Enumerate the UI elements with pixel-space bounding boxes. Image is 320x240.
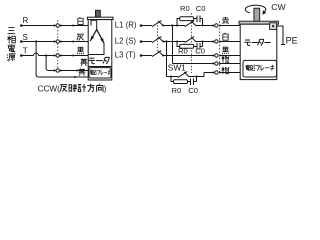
svg-text:): )	[104, 85, 107, 94]
svg-text:L2 (S): L2 (S)	[115, 36, 137, 45]
svg-text:SW1: SW1	[168, 62, 186, 72]
svg-text:C0: C0	[188, 86, 198, 95]
svg-text:R0: R0	[180, 4, 190, 13]
svg-text:R0: R0	[178, 46, 188, 55]
svg-text:S: S	[23, 33, 28, 42]
svg-text:R0: R0	[172, 86, 182, 95]
svg-text:C0: C0	[196, 4, 206, 13]
svg-text:T: T	[23, 47, 28, 56]
svg-text:CW: CW	[271, 2, 286, 12]
svg-text:L1 (R): L1 (R)	[115, 20, 137, 29]
svg-text:PE: PE	[286, 35, 298, 45]
svg-text:L3 (T): L3 (T)	[115, 50, 136, 59]
svg-text:R: R	[23, 16, 29, 25]
svg-text:CCW(: CCW(	[38, 85, 61, 94]
svg-text:C0: C0	[195, 46, 205, 55]
